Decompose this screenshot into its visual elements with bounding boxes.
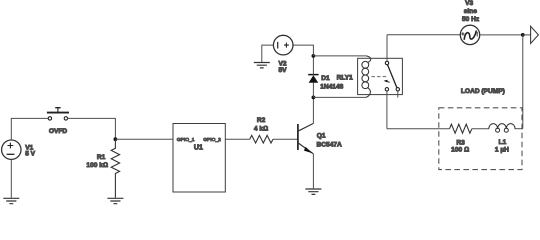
- relay RLY1 box: [358, 58, 403, 94]
- svg-text:5V: 5V: [279, 67, 288, 74]
- wire node to connector: [523, 34, 531, 36]
- relay actuation arrow: [384, 80, 390, 83]
- wire Q1 emitter down: [312, 154, 314, 189]
- relay coil: [362, 56, 371, 98]
- svg-text:Q1: Q1: [317, 133, 326, 140]
- label R1 100 kOhm: [86, 154, 108, 169]
- svg-text:100 Ω: 100 Ω: [451, 147, 469, 154]
- svg-text:5 V: 5 V: [25, 151, 35, 158]
- wire L1 to right edge: [514, 128, 522, 130]
- svg-text:4 kΩ: 4 kΩ: [254, 125, 268, 132]
- wire relay to R3: [387, 128, 450, 130]
- svg-text:R3: R3: [456, 139, 465, 146]
- IC U1 box: [173, 124, 225, 193]
- wire AC rail to V3: [387, 34, 460, 36]
- wire relay coil bottom to collector node: [313, 96, 366, 98]
- relay NO stub: [397, 91, 399, 98]
- svg-text:D1: D1: [321, 75, 330, 82]
- svg-text:LOAD (PUMP): LOAD (PUMP): [461, 88, 505, 95]
- svg-text:L1: L1: [499, 139, 507, 146]
- wire Q1 collector up: [312, 97, 314, 123]
- wire relay NC down to load: [386, 91, 388, 129]
- wire V1 top to switch: [11, 118, 48, 140]
- ground (V2): [254, 63, 270, 68]
- ground (V1): [3, 198, 19, 203]
- svg-text:GPIO_1: GPIO_1: [177, 137, 195, 143]
- svg-text:RLY1: RLY1: [337, 74, 354, 81]
- source V2: [273, 35, 293, 55]
- relay contact NO: [396, 88, 399, 91]
- label L1 1 uH: [495, 139, 509, 153]
- svg-text:100 kΩ: 100 kΩ: [86, 162, 108, 169]
- wire output node down to load: [522, 35, 524, 129]
- wire U1 to R2: [225, 138, 250, 140]
- ground (R1): [107, 198, 123, 203]
- source V3: [460, 25, 479, 44]
- relay contact NC: [385, 88, 388, 91]
- wire junction to U1: [115, 138, 173, 140]
- relay actuation dashed line: [372, 76, 388, 78]
- svg-text:GPIO_2: GPIO_2: [203, 137, 221, 143]
- resistor R2: [250, 135, 273, 143]
- node coil-top junction: [312, 54, 316, 58]
- wire R2 to Q1 base: [273, 138, 298, 140]
- wire V2 left to ground: [262, 45, 274, 62]
- label V1 5 V: [25, 144, 35, 157]
- io connector triangle: [531, 26, 539, 43]
- svg-text:1 µH: 1 µH: [495, 147, 509, 154]
- svg-text:R1: R1: [97, 154, 106, 161]
- resistor R1: [111, 139, 119, 198]
- wire R3 to L1: [472, 128, 489, 130]
- wire switch to R1 junction: [68, 118, 116, 139]
- svg-text:BC547A: BC547A: [317, 142, 343, 149]
- node collector junction: [312, 96, 316, 100]
- source V1: [2, 140, 21, 159]
- svg-text:V3: V3: [465, 0, 473, 7]
- push button OVFD: [47, 108, 69, 120]
- svg-text:sine: sine: [464, 8, 478, 15]
- label Q1 BC547A: [317, 133, 343, 149]
- label D1 1N4148: [320, 75, 343, 91]
- wire V1 bottom to ground: [10, 159, 12, 197]
- ground (Q1): [305, 189, 321, 194]
- relay switch blade: [388, 65, 397, 88]
- inductor L1: [489, 124, 515, 133]
- label V2 5V: [279, 60, 288, 74]
- label R3 100 Ohm: [451, 139, 469, 153]
- svg-text:OVFD: OVFD: [49, 128, 68, 135]
- label V3 sine 50 Hz: [462, 0, 480, 23]
- svg-text:U1: U1: [194, 145, 203, 152]
- svg-text:50 Hz: 50 Hz: [462, 16, 480, 23]
- resistor R3: [450, 124, 472, 133]
- wire V3 to output node: [480, 34, 523, 36]
- diode D1: [308, 56, 318, 98]
- relay contact common: [385, 61, 388, 64]
- node junction R1: [114, 137, 118, 141]
- wire relay common up to AC rail: [386, 35, 388, 62]
- svg-text:1N4148: 1N4148: [320, 84, 343, 91]
- node output junction: [521, 33, 525, 37]
- svg-text:R2: R2: [257, 117, 266, 124]
- transistor Q1: [298, 123, 314, 153]
- wire junction to relay coil top: [313, 55, 366, 57]
- wire V2 to junction corner: [293, 45, 314, 56]
- label R2 4 kOhm: [254, 117, 268, 132]
- load dashed box: [439, 108, 522, 170]
